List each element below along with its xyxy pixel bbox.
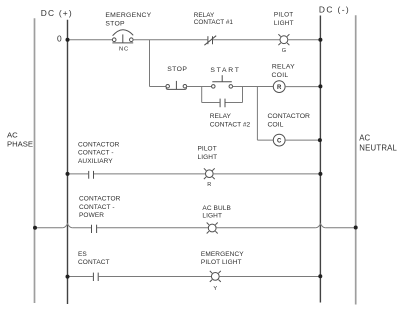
emergency stop pushbutton NC [112, 30, 133, 43]
node rung1 right junction dot [318, 38, 322, 42]
svg-text:START: START [210, 67, 240, 74]
svg-text:COIL: COIL [272, 72, 289, 79]
wire rung4 segment b [72, 227, 91, 229]
pilot light R [204, 168, 215, 179]
svg-text:AC: AC [7, 130, 18, 139]
svg-text:Y: Y [213, 286, 217, 292]
label CONTACTOR CONTACT - POWER [79, 196, 121, 219]
wire rung2 segment c [233, 86, 274, 88]
wire rung5 segment a [68, 276, 93, 278]
svg-text:RELAY: RELAY [272, 64, 295, 71]
svg-text:PILOT LIGHT: PILOT LIGHT [201, 259, 242, 266]
wire rung1 segment b [133, 39, 207, 41]
svg-text:C: C [277, 138, 282, 144]
wire contactor branch to rail [285, 139, 320, 141]
node rung2 right junction dot [318, 84, 322, 88]
ES contact (NO contact) [93, 273, 98, 281]
svg-text:LIGHT: LIGHT [198, 154, 218, 161]
wire rung3 segment c [213, 173, 320, 175]
svg-text:PILOT: PILOT [198, 146, 217, 153]
wire contactor branch horizontal [257, 139, 273, 141]
svg-text:NEUTRAL: NEUTRAL [359, 143, 397, 152]
svg-text:ES: ES [78, 251, 87, 258]
label DC (-) [319, 4, 350, 14]
node rung5 left junction dot [66, 275, 70, 279]
wire rung1 segment c [213, 39, 280, 41]
svg-text:CONTACTOR: CONTACTOR [78, 142, 120, 149]
svg-text:CONTACT #2: CONTACT #2 [210, 122, 251, 129]
wire rung2 segment a [150, 86, 167, 88]
svg-text:PHASE: PHASE [7, 140, 33, 149]
svg-text:G: G [282, 48, 286, 54]
wire rung1 segment d [288, 39, 321, 41]
ac bulb light [207, 223, 218, 234]
label PILOT LIGHT (R) [198, 146, 218, 161]
svg-text:POWER: POWER [79, 212, 104, 219]
wire rung3 segment a [68, 173, 89, 175]
svg-text:CONTACT: CONTACT [78, 259, 110, 266]
svg-text:R: R [207, 182, 211, 188]
node 0 label [57, 34, 62, 44]
contactor contact auxiliary (NO contact) [89, 171, 94, 179]
label RELAY CONTACT #2 [210, 113, 251, 128]
node rung1 left junction dot [66, 38, 70, 42]
label DC (+) [41, 8, 73, 18]
label RELAY CONTACT #1 [194, 12, 234, 26]
emergency pilot light Y [210, 271, 221, 282]
wire rung1 segment a [68, 39, 113, 41]
wire rung4 segment c [97, 227, 208, 229]
svg-text:EMERGENCY: EMERGENCY [105, 12, 151, 19]
svg-text:AC: AC [359, 134, 370, 143]
svg-text:DC (-): DC (-) [319, 4, 350, 14]
node rung3 right junction dot [318, 172, 322, 176]
wire crossover hop at DC- rail [316, 224, 325, 228]
label AC PHASE [7, 130, 33, 148]
label RELAY COIL [272, 64, 296, 79]
label CONTACTOR COIL [268, 113, 311, 128]
power rail DC (+) (left, dark) [67, 20, 69, 304]
label R [207, 182, 211, 188]
svg-text:CONTACT #1: CONTACT #1 [194, 19, 234, 26]
wire rung4 segment d [216, 227, 316, 229]
wire crossover hop at DC+ rail [63, 224, 72, 228]
node rung5 right junction dot [318, 274, 322, 278]
svg-text:LIGHT: LIGHT [274, 20, 294, 27]
wire branch drop rung1 to rung2 [149, 40, 151, 87]
svg-text:STOP: STOP [105, 20, 125, 27]
svg-text:EMERGENCY: EMERGENCY [201, 251, 244, 258]
label CONTACTOR CONTACT - AUXILIARY [78, 142, 120, 165]
wire parallel branch left drop [201, 87, 203, 103]
relay coil U1 (R) [273, 81, 285, 93]
svg-text:CONTACT -: CONTACT - [79, 204, 115, 211]
power rail AC NEUTRAL (right, gray) [355, 15, 357, 304]
svg-text:0: 0 [57, 34, 62, 44]
label NC [119, 47, 129, 53]
wire contactor branch drop [256, 87, 258, 141]
label START [210, 67, 240, 74]
wire rung5 segment b [99, 276, 212, 278]
svg-text:NC: NC [119, 47, 129, 53]
wire rung2 segment b [187, 86, 212, 88]
svg-text:CONTACTOR: CONTACTOR [79, 196, 121, 203]
svg-text:R: R [277, 85, 282, 91]
svg-text:AC BULB: AC BULB [202, 205, 231, 212]
power rail AC PHASE (left, gray) [34, 18, 36, 303]
svg-text:AUXILIARY: AUXILIARY [78, 158, 113, 165]
label STOP [167, 66, 187, 73]
stop pushbutton NC [166, 81, 187, 90]
wire parallel branch right drop [242, 87, 244, 103]
wire rung5 segment c [219, 276, 320, 278]
label PILOT LIGHT (G) [274, 12, 294, 27]
wire rung4 segment e [325, 227, 356, 229]
relay contact #2 (NO contact) [220, 99, 225, 108]
svg-text:RELAY: RELAY [210, 113, 232, 120]
svg-text:LIGHT: LIGHT [202, 213, 222, 220]
wire rung4 segment a [35, 227, 63, 229]
svg-text:STOP: STOP [167, 66, 187, 73]
svg-text:CONTACTOR: CONTACTOR [268, 113, 311, 120]
svg-text:COIL: COIL [268, 121, 284, 128]
svg-text:DC (+): DC (+) [41, 8, 73, 18]
node rung3 left junction dot [66, 172, 70, 176]
label ES CONTACT [78, 251, 110, 266]
node rung4 left junction dot [33, 226, 37, 230]
wire parallel branch bottom left [202, 102, 220, 104]
label AC BULB LIGHT [202, 205, 231, 220]
wire rung2 segment d [285, 86, 320, 88]
contactor contact power (NO contact) [92, 225, 97, 233]
start pushbutton NO [212, 75, 233, 88]
node rung4 right junction dot [354, 226, 358, 230]
svg-text:PILOT: PILOT [274, 12, 293, 19]
label AC NEUTRAL [359, 134, 397, 153]
relay contact #1 (NC contact) [204, 36, 216, 46]
label EMERGENCY STOP [105, 12, 151, 27]
label Y [213, 286, 217, 292]
wire rung3 segment b [94, 173, 206, 175]
wire parallel branch bottom right [226, 102, 243, 104]
pilot light G [278, 34, 289, 45]
contactor coil U2 (C) [273, 134, 285, 146]
power rail DC (-) (right, dark) [319, 16, 321, 303]
node contactor coil junction dot [318, 138, 322, 142]
label EMERGENCY PILOT LIGHT [201, 251, 244, 266]
svg-text:CONTACT -: CONTACT - [78, 150, 114, 157]
label G [282, 48, 286, 54]
